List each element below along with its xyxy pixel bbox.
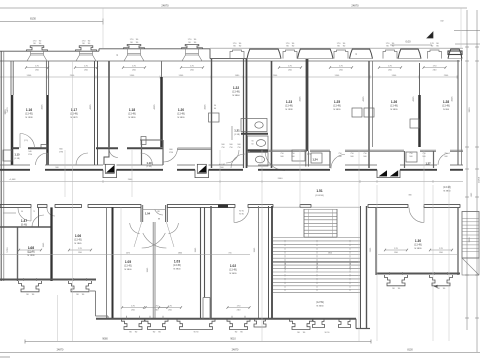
svg-text:90 90: 90 90 (325, 332, 330, 334)
svg-text:N 1879: N 1879 (70, 117, 78, 119)
svg-text:900: 900 (409, 156, 412, 158)
svg-text:(13.45): (13.45) (74, 239, 82, 242)
svg-text:(1.98): (1.98) (234, 134, 240, 136)
svg-text:N 3800: N 3800 (173, 268, 181, 270)
svg-text:750: 750 (363, 153, 366, 155)
svg-text:1.25: 1.25 (334, 100, 340, 104)
svg-text:1.24: 1.24 (312, 158, 318, 162)
svg-text:3830: 3830 (469, 237, 471, 243)
svg-text:VYSTUP: VYSTUP (350, 261, 352, 270)
svg-text:940: 940 (28, 151, 31, 153)
svg-text:1.20: 1.20 (178, 108, 184, 112)
svg-text:N 3630: N 3630 (316, 306, 324, 308)
svg-text:0,00: 0,00 (405, 40, 411, 44)
svg-text:(13.48): (13.48) (442, 105, 450, 108)
svg-text:1.08: 1.08 (28, 246, 34, 250)
svg-text:1.28: 1.28 (443, 100, 449, 104)
svg-text:1796: 1796 (59, 151, 63, 153)
svg-text:4225: 4225 (300, 96, 302, 102)
svg-text:N 3830: N 3830 (177, 117, 185, 119)
svg-text:900: 900 (444, 156, 447, 158)
svg-text:1.23: 1.23 (286, 100, 292, 104)
svg-text:N 384: N 384 (443, 109, 450, 111)
svg-text:(13.45): (13.45) (124, 265, 132, 268)
svg-text:N 3864: N 3864 (232, 95, 240, 97)
svg-text:1.51: 1.51 (316, 189, 322, 193)
svg-text:3830: 3830 (469, 107, 471, 113)
svg-text:(13.48): (13.48) (414, 244, 422, 247)
svg-text:5820: 5820 (328, 252, 332, 254)
svg-text:N 1938: N 1938 (285, 109, 293, 111)
svg-text:750: 750 (237, 147, 240, 149)
svg-text:90: 90 (214, 105, 216, 107)
svg-text:5470: 5470 (7, 107, 9, 113)
svg-text:1.02: 1.02 (230, 264, 236, 268)
svg-text:750: 750 (409, 153, 412, 155)
svg-text:2075: 2075 (126, 252, 130, 254)
svg-text:4225: 4225 (205, 104, 207, 110)
svg-text:1750: 1750 (28, 154, 32, 156)
svg-text:2440: 2440 (278, 178, 284, 180)
svg-text:4225: 4225 (90, 104, 92, 110)
svg-text:(1.98): (1.98) (147, 166, 152, 168)
svg-text:900: 900 (363, 156, 366, 158)
svg-text:1.17: 1.17 (71, 108, 77, 112)
svg-text:(13.48): (13.48) (229, 269, 237, 272)
svg-text:4225: 4225 (154, 104, 156, 110)
svg-text:750: 750 (221, 147, 224, 149)
svg-text:(13.48): (13.48) (128, 113, 136, 116)
svg-text:1.22: 1.22 (233, 86, 239, 90)
svg-text:9010: 9010 (230, 338, 236, 341)
svg-text:900: 900 (350, 156, 353, 158)
svg-text:N 3630: N 3630 (229, 273, 237, 275)
svg-text:380: 380 (408, 195, 411, 197)
svg-text:1.19: 1.19 (146, 161, 152, 165)
svg-text:4225: 4225 (413, 96, 415, 102)
svg-text:1.47: 1.47 (21, 219, 27, 223)
svg-text:24870: 24870 (232, 349, 239, 352)
svg-text:800: 800 (169, 149, 172, 151)
svg-text:24870: 24870 (161, 4, 169, 8)
svg-text:(13.48): (13.48) (232, 91, 240, 94)
svg-text:(13.48): (13.48) (70, 113, 78, 116)
svg-text:900: 900 (229, 144, 232, 146)
svg-text:1.18: 1.18 (129, 108, 135, 112)
svg-text:9080: 9080 (102, 338, 108, 341)
svg-text:N 3830: N 3830 (128, 117, 136, 119)
svg-text:90 80: 90 80 (239, 214, 244, 216)
svg-text:(12.59): (12.59) (316, 301, 324, 304)
svg-text:8130: 8130 (407, 349, 413, 352)
svg-text:4225: 4225 (42, 104, 44, 110)
svg-text:N 3830: N 3830 (333, 109, 341, 111)
svg-text:750: 750 (280, 153, 283, 155)
svg-text:1.05: 1.05 (125, 260, 131, 264)
svg-text:1.21: 1.21 (234, 129, 240, 133)
svg-text:N 3800: N 3800 (124, 269, 132, 271)
svg-text:N 1938: N 1938 (27, 255, 35, 257)
svg-text:(124.59): (124.59) (315, 195, 323, 197)
svg-text:(13.48): (13.48) (177, 113, 185, 116)
svg-text:(13.45): (13.45) (25, 113, 33, 116)
svg-text:1.04: 1.04 (145, 212, 151, 216)
svg-text:(12.48): (12.48) (27, 251, 35, 254)
svg-text:900: 900 (280, 156, 283, 158)
svg-text:(13.45): (13.45) (173, 264, 181, 267)
svg-text:705: 705 (228, 252, 231, 254)
svg-text:4225: 4225 (363, 96, 365, 102)
svg-text:N 1938: N 1938 (25, 117, 33, 119)
svg-text:1.06: 1.06 (75, 234, 81, 238)
svg-text:1.03: 1.03 (174, 260, 180, 264)
svg-text:8130: 8130 (30, 17, 36, 21)
svg-text:(5.48): (5.48) (21, 224, 27, 227)
svg-text:(2.5): (2.5) (24, 140, 28, 142)
svg-text:+1,448: +1,448 (9, 179, 17, 181)
svg-text:N 3830: N 3830 (390, 109, 398, 111)
svg-text:750: 750 (229, 147, 232, 149)
svg-text:60: 60 (252, 144, 254, 146)
svg-text:900: 900 (338, 156, 341, 158)
svg-text:VYSTUP: VYSTUP (285, 261, 287, 270)
svg-text:(1.98): (1.98) (14, 158, 20, 160)
svg-text:1750: 1750 (169, 152, 173, 154)
svg-text:VYSTUP: VYSTUP (317, 261, 319, 270)
svg-text:900: 900 (220, 167, 223, 169)
svg-text:1.16: 1.16 (26, 108, 32, 112)
svg-text:1.15: 1.15 (14, 153, 20, 157)
svg-text:90: 90 (21, 211, 23, 213)
svg-text:1.26: 1.26 (391, 100, 397, 104)
svg-text:(13.48): (13.48) (443, 186, 451, 189)
svg-text:900: 900 (237, 144, 240, 146)
svg-text:800: 800 (59, 149, 62, 151)
svg-text:900: 900 (221, 144, 224, 146)
svg-text:(13.48): (13.48) (333, 105, 341, 108)
svg-text:90: 90 (252, 141, 254, 143)
svg-text:N 3830: N 3830 (414, 248, 422, 250)
svg-text:4225: 4225 (452, 96, 454, 102)
svg-text:1.27: 1.27 (425, 162, 431, 166)
svg-text:1.30: 1.30 (415, 239, 421, 243)
svg-text:24870: 24870 (351, 4, 359, 8)
svg-text:(13.48): (13.48) (285, 105, 293, 108)
svg-text:5750: 5750 (7, 247, 9, 253)
svg-text:N 3830: N 3830 (443, 191, 451, 193)
svg-text:(2.5): (2.5) (307, 154, 311, 156)
svg-text:N 1845: N 1845 (74, 243, 82, 245)
svg-text:60: 60 (214, 108, 216, 110)
svg-text:90 90: 90 90 (239, 211, 244, 213)
svg-text:24870: 24870 (57, 349, 64, 352)
svg-text:90 90: 90 90 (194, 332, 199, 334)
svg-text:75: 75 (33, 211, 35, 213)
svg-text:(13.48): (13.48) (390, 105, 398, 108)
svg-text:2860: 2860 (178, 252, 182, 254)
svg-text:750: 750 (350, 153, 353, 155)
